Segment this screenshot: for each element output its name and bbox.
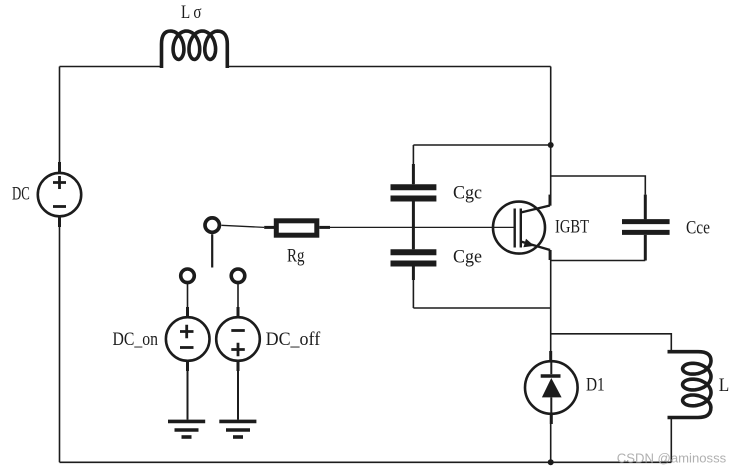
svg-text:D1: D1 (586, 375, 605, 396)
node junction dot collector (548, 142, 554, 148)
svg-text:DC_on: DC_on (113, 329, 159, 350)
wire diode to bottom (550, 414, 552, 463)
svg-text:DC_off: DC_off (266, 329, 321, 350)
diode D1 (525, 351, 578, 424)
wire Cge bottom lead (412, 267, 414, 309)
svg-text:L σ: L σ (181, 2, 202, 23)
inductor Lsigma (162, 31, 228, 68)
resistor Rg (264, 221, 330, 235)
switch pivot (205, 218, 219, 232)
capacitor Cgc (391, 164, 437, 249)
voltage source DC_off (216, 283, 260, 420)
svg-text:Cce: Cce (686, 218, 710, 239)
wire Cce top (551, 176, 646, 195)
svg-text:CSDN @aminosss: CSDN @aminosss (617, 451, 727, 466)
wire gate box bottom (413, 307, 550, 309)
wire to load inductor (551, 334, 672, 352)
voltage source DC (38, 162, 81, 227)
svg-text:L: L (719, 375, 730, 396)
svg-text:Cge: Cge (453, 246, 482, 267)
voltage source DC_on (166, 283, 210, 420)
wire Cgc top lead (412, 145, 414, 184)
wire left vertical lower (59, 227, 61, 462)
svg-text:Cgc: Cgc (453, 182, 482, 203)
switch terminal DC_on (181, 269, 195, 283)
capacitor Cge (391, 252, 437, 280)
svg-text:Rg: Rg (287, 245, 305, 266)
wire inductor L to bottom (670, 418, 672, 463)
capacitor Cce (622, 195, 670, 261)
svg-text:DC: DC (12, 184, 30, 205)
ground right (219, 421, 256, 437)
wire resistor to gate (330, 226, 515, 228)
transistor IGBT (493, 195, 550, 260)
inductor L (668, 352, 712, 418)
switch terminal DC_off (231, 269, 245, 283)
ground left (168, 421, 205, 437)
wire switch to resistor (221, 225, 264, 227)
wire top-left horizontal (60, 66, 162, 68)
wire left vertical upper (59, 67, 61, 163)
wire emitter vertical (550, 250, 552, 361)
wire Cce bottom (551, 260, 646, 262)
wire junction to gate box (413, 144, 550, 146)
wire top-right horizontal (227, 66, 550, 68)
svg-text:IGBT: IGBT (555, 217, 589, 238)
wire collector vertical (550, 67, 552, 197)
node junction dot bottom (548, 459, 554, 465)
wire bottom horizontal (60, 461, 672, 463)
switch lever (211, 234, 213, 267)
